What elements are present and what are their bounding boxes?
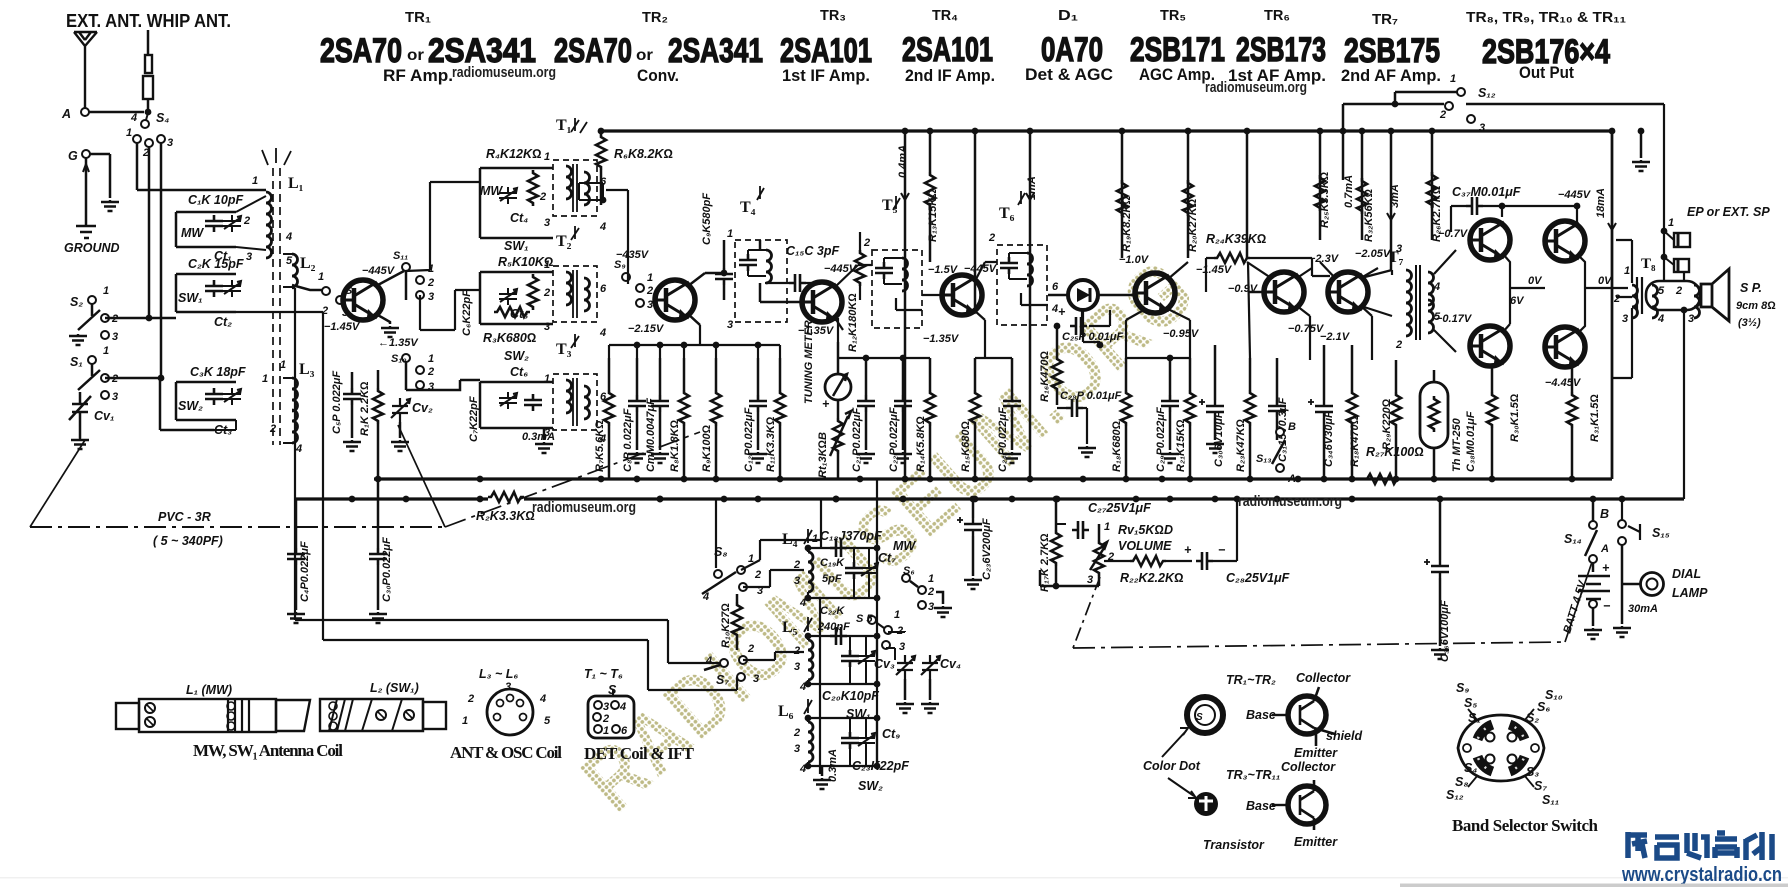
trimmer Ct8: [857, 650, 875, 667]
svg-text:4: 4: [599, 221, 606, 233]
svg-text:S: S: [1196, 712, 1203, 723]
svg-text:R₁₂K180KΩ: R₁₂K180KΩ: [847, 293, 859, 352]
svg-text:4: 4: [599, 327, 606, 339]
switch S13: [1276, 428, 1284, 436]
svg-text:3: 3: [112, 331, 118, 343]
S4 wires down: [137, 143, 161, 378]
svg-text:R₂₄K39KΩ: R₂₄K39KΩ: [1206, 232, 1267, 246]
ground C4: [287, 612, 305, 623]
switch S8: [714, 570, 722, 578]
svg-text:3: 3: [794, 743, 800, 755]
resistor R17 2.7K: [1051, 530, 1061, 566]
svg-text:A: A: [1600, 543, 1609, 555]
transistor TR6 2SB173 1st AF: [1264, 272, 1304, 312]
svg-text:L₅: L₅: [782, 619, 798, 636]
svg-text:B: B: [1288, 421, 1296, 433]
svg-text:4: 4: [1433, 281, 1440, 293]
svg-text:−1.45V: −1.45V: [1196, 264, 1233, 276]
block bus verticals: [236, 312, 323, 640]
svg-text:Ct₉: Ct₉: [882, 727, 900, 741]
svg-text:3: 3: [112, 391, 118, 403]
svg-text:6: 6: [621, 725, 628, 737]
svg-text:EXT. ANT. WHIP ANT.: EXT. ANT. WHIP ANT.: [66, 11, 231, 31]
svg-text:2: 2: [539, 191, 546, 203]
electrolytic C34 6V30uF: [1308, 399, 1333, 418]
svg-text:R₂₇K100Ω: R₂₇K100Ω: [1366, 445, 1424, 459]
svg-text:radiomuseum.org: radiomuseum.org: [532, 500, 636, 516]
svg-text:D₁: D₁: [1058, 7, 1078, 24]
ground L6: [813, 778, 831, 789]
capacitor C4 0.022uF: [287, 548, 305, 565]
electrolytic C23 6V200uF: [957, 517, 982, 536]
svg-text:2: 2: [427, 277, 434, 289]
svg-text:R₁₁K3.3KΩ: R₁₁K3.3KΩ: [765, 416, 777, 472]
resistor R31 1.5ohm: [1567, 392, 1577, 428]
svg-text:S₄: S₄: [1464, 761, 1477, 775]
svg-text:2: 2: [793, 727, 800, 739]
L6 coil: [808, 722, 813, 762]
svg-text:1: 1: [603, 725, 609, 737]
wire pot bottom: [1040, 570, 1099, 586]
current arrows on feeds: [901, 193, 909, 200]
T8 wires: [1612, 240, 1632, 378]
capacitor C25 0.01uF: [1070, 317, 1087, 335]
wires from left into osc block: [295, 620, 720, 663]
svg-text:C₂₂P0.022μF: C₂₂P0.022μF: [888, 407, 900, 472]
svg-text:B: B: [1600, 507, 1609, 521]
terminal G: [82, 150, 90, 158]
ground Cv4: [921, 702, 939, 713]
svg-text:S₁₄: S₁₄: [1564, 532, 1582, 546]
svg-text:C₃K 18pF: C₃K 18pF: [190, 365, 246, 379]
component column R&#8321;&#8321;K3.3K&#8486;: [775, 390, 785, 426]
svg-text:5pF: 5pF: [822, 573, 842, 585]
svg-text:9cm 8Ω: 9cm 8Ω: [1736, 300, 1776, 312]
svg-text:L₁ (MW): L₁ (MW): [186, 683, 232, 697]
transistor TR10 2SB176: [1470, 326, 1510, 366]
crystalradio logo blue: [1628, 832, 1772, 860]
svg-text:Cv₁: Cv₁: [94, 409, 114, 423]
svg-text:−: −: [1218, 543, 1226, 557]
transistor TR1 2SA70 RF amp: [343, 280, 383, 320]
band selector switch: [1458, 715, 1544, 781]
svg-text:2: 2: [747, 643, 754, 655]
svg-text:C₂K 15pF: C₂K 15pF: [188, 257, 244, 271]
component column C&#8322;&#8322;P0.022&#956;F: [894, 395, 912, 412]
svg-text:1: 1: [544, 373, 550, 385]
svg-text:LAMP: LAMP: [1672, 586, 1708, 600]
component column R&#8322;&#8323;K47K&#8486;: [1245, 390, 1255, 426]
ground Cv2: [391, 440, 409, 451]
resistor R22 2.2K: [1130, 556, 1166, 566]
svg-text:2SA70: 2SA70: [320, 32, 402, 70]
svg-text:TR₂: TR₂: [642, 9, 668, 26]
svg-text:TR₁: TR₁: [405, 9, 431, 26]
svg-text:S₈: S₈: [1455, 775, 1468, 789]
svg-text:5: 5: [286, 255, 293, 267]
svg-text:( 5 ~ 340PF): ( 5 ~ 340PF): [153, 534, 223, 548]
svg-text:S₁₂: S₁₂: [1478, 86, 1496, 100]
component column R&#8329;K100&#8486;: [711, 390, 721, 426]
svg-text:ANT & OSC Coil: ANT & OSC Coil: [450, 743, 562, 762]
PVC-3R dash-dot boundary: [30, 526, 445, 528]
svg-text:1: 1: [727, 228, 733, 240]
svg-text:3: 3: [505, 681, 511, 693]
capacitor C21: [841, 732, 859, 749]
column group bus wires: [609, 344, 780, 346]
svg-text:1st IF Amp.: 1st IF Amp.: [782, 66, 870, 85]
L1 antenna rod dashed: [273, 168, 280, 445]
resistor R20 27K: [1183, 180, 1193, 216]
T8 primary coil: [1632, 285, 1638, 318]
svg-text:3: 3: [1688, 313, 1694, 325]
svg-text:6: 6: [600, 283, 607, 295]
top supply rail: [600, 129, 1612, 132]
resistor R10 27: [732, 602, 742, 638]
svg-text:C₁K 10pF: C₁K 10pF: [188, 193, 243, 207]
svg-text:T₂: T₂: [556, 233, 572, 250]
component column C&#8322;&#8321;P0.022&#956;F: [857, 395, 875, 412]
svg-text:Ct₇: Ct₇: [878, 551, 896, 565]
svg-text:2: 2: [988, 232, 995, 244]
svg-text:−2.1V: −2.1V: [1320, 331, 1351, 343]
svg-text:4: 4: [619, 701, 626, 713]
svg-text:S₅: S₅: [1464, 696, 1477, 710]
svg-text:1: 1: [252, 175, 258, 187]
resistor R12 180K: [855, 250, 865, 286]
small color dot: [1194, 792, 1218, 816]
component column R&#8322;&#8321;K15K&#8486;: [1185, 390, 1195, 426]
svg-text:4: 4: [130, 112, 137, 124]
svg-text:L₃ ~ L₆: L₃ ~ L₆: [479, 667, 518, 681]
svg-text:Cv₄: Cv₄: [940, 657, 961, 671]
svg-text:Cv₂: Cv₂: [412, 401, 433, 415]
svg-text:1: 1: [103, 285, 109, 297]
svg-text:Emitter: Emitter: [1294, 746, 1338, 760]
svg-text:Band Selector Switch: Band Selector Switch: [1452, 816, 1599, 835]
ext antenna symbol: [74, 32, 97, 112]
svg-text:S₃: S₃: [1526, 765, 1539, 779]
svg-text:−2.05V: −2.05V: [1355, 248, 1392, 260]
ground T3 area: [535, 442, 553, 453]
svg-text:C₂₄P0.022μF: C₂₄P0.022μF: [997, 407, 1009, 472]
svg-text:T₄: T₄: [740, 199, 756, 216]
trimmer Ct4: [499, 187, 517, 204]
svg-text:TR₄: TR₄: [932, 7, 958, 24]
svg-text:RF Amp.: RF Amp.: [383, 66, 453, 85]
svg-text:GROUND: GROUND: [64, 241, 120, 255]
svg-text:T₈: T₈: [1641, 256, 1656, 272]
svg-text:R₃₁K1.5Ω: R₃₁K1.5Ω: [1589, 394, 1601, 442]
svg-text:3: 3: [603, 701, 609, 713]
svg-text:1: 1: [103, 345, 109, 357]
svg-text:Collector: Collector: [1281, 760, 1336, 774]
svg-text:−0.95V: −0.95V: [1163, 328, 1200, 340]
ground C30: [1206, 442, 1224, 453]
svg-text:−1.35V: −1.35V: [923, 333, 960, 345]
transistor TR5 2SB171 AGC: [1135, 273, 1175, 313]
capacitor C22 on L5: [830, 627, 847, 645]
potentiometer Rv1 5K: [1094, 540, 1104, 576]
svg-text:Transistor: Transistor: [1203, 838, 1265, 852]
svg-text:3: 3: [928, 601, 934, 613]
svg-text:MW: MW: [480, 184, 503, 198]
svg-text:R₃K680Ω: R₃K680Ω: [483, 331, 537, 345]
svg-text:or: or: [636, 47, 653, 64]
svg-text:C₇K22pF: C₇K22pF: [468, 396, 480, 442]
resistor R24 39K: [1214, 253, 1250, 263]
L5 loop: [808, 636, 877, 684]
transistor TR2 2SA70 conv: [655, 280, 695, 320]
svg-text:R₁₆K470Ω: R₁₆K470Ω: [1039, 351, 1051, 402]
svg-text:S₁₁: S₁₁: [393, 250, 408, 262]
svg-text:L₂ (SW₁): L₂ (SW₁): [370, 681, 419, 695]
svg-text:C₄P0.022μF: C₄P0.022μF: [299, 541, 311, 602]
svg-text:−1.45V: −1.45V: [324, 321, 361, 333]
svg-text:2: 2: [1439, 109, 1446, 121]
svg-text:S₁: S₁: [70, 355, 83, 369]
capacitor C15 3pF: [789, 274, 806, 292]
svg-text:S₇: S₇: [1534, 779, 1547, 793]
svg-text:Ct₄: Ct₄: [510, 211, 528, 225]
svg-text:3: 3: [544, 321, 550, 333]
svg-text:or: or: [407, 47, 424, 64]
svg-text:S₇: S₇: [716, 673, 729, 687]
svg-text:C₃₇M0.01μF: C₃₇M0.01μF: [1452, 185, 1521, 199]
T8 secondary coil b: [1694, 285, 1700, 318]
switch S4: [141, 120, 149, 128]
svg-text:Conv.: Conv.: [637, 66, 679, 85]
svg-text:←1.35V: ←1.35V: [378, 337, 419, 349]
resistor R25 3.3K: [1315, 175, 1325, 211]
svg-text:2SB175: 2SB175: [1344, 32, 1440, 70]
svg-text:shield: shield: [1326, 729, 1362, 743]
svg-text:C₂₇25V1μF: C₂₇25V1μF: [1088, 501, 1151, 515]
rail junction dots/verticals: [904, 131, 907, 479]
resistor R27 100: [1364, 474, 1400, 484]
T5 transformer: [872, 250, 922, 328]
svg-text:3: 3: [794, 575, 800, 587]
svg-text:C₃₈M0.01μF: C₃₈M0.01μF: [1465, 411, 1477, 472]
ground battery: [1584, 628, 1602, 639]
svg-text:R₂₁K15KΩ: R₂₁K15KΩ: [1175, 419, 1187, 472]
capacitor C31 0.3uF: [1268, 400, 1286, 417]
ground dial lamp: [1613, 626, 1631, 637]
svg-text:Base: Base: [1246, 799, 1276, 813]
svg-text:2: 2: [467, 693, 474, 705]
svg-text:4: 4: [1657, 313, 1664, 325]
svg-text:S₂: S₂: [70, 295, 83, 309]
trimmer Ct3: [223, 388, 241, 405]
svg-text:3: 3: [647, 299, 653, 311]
mid rail upper y479: [374, 477, 1612, 480]
component column CmM0.0047&#956;F: [651, 395, 669, 412]
svg-text:T₃: T₃: [556, 341, 572, 358]
svg-text:Ct₆: Ct₆: [510, 365, 528, 379]
svg-text:CmM0.0047μF: CmM0.0047μF: [645, 398, 657, 472]
svg-text:S P.: S P.: [1740, 281, 1762, 295]
svg-text:4: 4: [799, 763, 806, 775]
wires T1 to S9: [606, 190, 628, 284]
svg-text:2SA101: 2SA101: [902, 31, 993, 69]
capacitor C28P 0.01uF: [1066, 399, 1083, 417]
svg-text:−1.5V: −1.5V: [928, 264, 959, 276]
D1 wires down: [1083, 310, 1100, 342]
volume dash-dot linkage: [1073, 577, 1100, 648]
resistor R6 8.2K: [596, 134, 606, 170]
capacitor C3: [205, 388, 223, 405]
svg-text:TR₇: TR₇: [1372, 11, 1398, 28]
svg-text:6V: 6V: [1510, 295, 1525, 307]
mid rail lower y499: [296, 497, 1684, 500]
selector ring arcs: [1478, 725, 1525, 772]
svg-text:TR₃: TR₃: [820, 7, 846, 24]
svg-text:S₁₁: S₁₁: [1542, 793, 1559, 807]
svg-text:2: 2: [1613, 293, 1620, 305]
svg-text:−435V: −435V: [616, 249, 650, 261]
T7 wires to outputs: [1361, 250, 1456, 352]
svg-text:Base: Base: [1246, 708, 1276, 722]
vertical feeds into osc block: [716, 479, 877, 774]
electrolytic C36 6V100uF: [1424, 559, 1449, 578]
resistor R32 56K: [1357, 178, 1367, 214]
IF transformer T3: [553, 374, 597, 430]
thin grey line bottom: [0, 877, 1788, 879]
svg-text:2: 2: [1675, 285, 1682, 297]
svg-text:C₂₀K10pF: C₂₀K10pF: [822, 689, 879, 703]
trimmer Ct5: [499, 288, 517, 305]
TR1 emitter: [376, 314, 390, 324]
svg-text:TUNING METER: TUNING METER: [803, 320, 815, 404]
ground L6: [821, 766, 824, 776]
svg-text:−1.0V: −1.0V: [1119, 254, 1150, 266]
svg-text:3mA: 3mA: [1389, 184, 1401, 208]
switch S1: [88, 356, 96, 364]
svg-text:S₁₅: S₁₅: [1652, 526, 1670, 540]
svg-text:S₁: S₁: [1468, 711, 1481, 725]
svg-text:A: A: [61, 107, 71, 121]
svg-text:4: 4: [799, 681, 806, 693]
svg-text:1: 1: [280, 359, 286, 371]
svg-text:S₄: S₄: [156, 111, 169, 125]
resistor R29 220: [1391, 392, 1401, 428]
ground S2: [69, 334, 87, 345]
svg-text:Collector: Collector: [1296, 671, 1351, 685]
svg-text:3: 3: [727, 319, 733, 331]
trimmer Ct2: [223, 280, 241, 297]
L5 coil: [808, 640, 813, 680]
ground C23: [964, 578, 982, 589]
switch S5: [868, 616, 876, 624]
svg-text:C₁₅C 3pF: C₁₅C 3pF: [786, 244, 839, 258]
capacitor C9 580pF: [715, 268, 733, 285]
svg-text:3: 3: [428, 291, 434, 303]
whip antenna rod: [147, 30, 150, 55]
resistor R18 470: [1347, 390, 1357, 426]
svg-text:R₁₈K680Ω: R₁₈K680Ω: [1111, 420, 1123, 472]
svg-text:C₅P 0.022μF: C₅P 0.022μF: [331, 371, 343, 434]
svg-text:2nd IF Amp.: 2nd IF Amp.: [905, 66, 995, 85]
svg-text:C₆K22pF: C₆K22pF: [461, 290, 473, 336]
svg-text:0V: 0V: [1528, 275, 1543, 287]
ground C28P: [1078, 446, 1096, 457]
svg-text:S 5: S 5: [856, 613, 873, 625]
svg-text:T₁ ~ T₆: T₁ ~ T₆: [584, 667, 623, 681]
component column C&#8322;&#8329;P0.022&#956;F: [1161, 395, 1179, 412]
emitter stubs to column bus: [688, 314, 700, 345]
svg-text:R₂₉K220Ω: R₂₉K220Ω: [1381, 398, 1393, 450]
svg-text:TR₅: TR₅: [1160, 7, 1186, 24]
svg-text:30mA: 30mA: [1628, 603, 1658, 615]
svg-text:SW₂: SW₂: [178, 399, 203, 413]
capacitor in SW2 block: [524, 394, 542, 411]
svg-text:−: −: [1603, 599, 1611, 613]
svg-text:C₃₀P0.022μF: C₃₀P0.022μF: [381, 537, 393, 602]
wire to L1: [137, 189, 266, 192]
svg-text:4: 4: [705, 655, 712, 667]
switch S10: [402, 354, 410, 362]
capacitor C18 370pF: [830, 539, 847, 557]
svg-text:1: 1: [544, 151, 550, 163]
svg-text:www.crystalradio.cn: www.crystalradio.cn: [1621, 863, 1782, 886]
IF transformer T2: [553, 266, 597, 322]
T4 cap: [739, 254, 757, 271]
component column C&#8328;P 0.022&#956;F: [628, 395, 646, 412]
switch S2: [88, 296, 96, 304]
component column R&#8321;&#8324;K5.8K&#8486;: [925, 390, 935, 426]
svg-text:T₆: T₆: [999, 205, 1015, 222]
svg-text:1: 1: [126, 127, 132, 139]
svg-text:SW₁: SW₁: [178, 291, 203, 305]
transistor TR9 2SB176: [1545, 221, 1585, 261]
resistor R2 3.3K: [488, 492, 524, 502]
ground TR1 emitter: [381, 326, 399, 337]
ground C5: [343, 440, 361, 451]
ground C36: [1431, 648, 1449, 659]
svg-text:C₂₃K22pF: C₂₃K22pF: [852, 759, 909, 773]
svg-text:L₂: L₂: [300, 255, 316, 272]
switch S11: [402, 263, 410, 271]
svg-text:TR₃~TR₁₁: TR₃~TR₁₁: [1226, 768, 1280, 782]
svg-text:VOLUME: VOLUME: [1118, 539, 1172, 553]
svg-text:L₆: L₆: [778, 703, 794, 720]
svg-text:5: 5: [544, 715, 551, 727]
resistor R13 15K: [925, 172, 935, 208]
svg-text:S₁₀: S₁₀: [391, 353, 407, 365]
trimmer Ct1: [223, 215, 241, 232]
svg-text:Cv₃: Cv₃: [874, 657, 895, 671]
variable capacitor Cv1: [69, 392, 91, 438]
svg-text:R₆K8.2KΩ: R₆K8.2KΩ: [614, 147, 673, 161]
switch S6: [902, 574, 910, 582]
svg-text:L₃: L₃: [299, 361, 315, 378]
svg-text:1: 1: [1624, 265, 1630, 277]
electrolytic C28 1uF: [1196, 552, 1213, 570]
thermistor element: [1429, 396, 1439, 432]
svg-text:C₈P 0.022μF: C₈P 0.022μF: [622, 408, 634, 472]
svg-text:SW₂: SW₂: [504, 349, 529, 363]
svg-text:Out Put: Out Put: [1519, 63, 1574, 82]
svg-text:2SB173: 2SB173: [1236, 31, 1326, 69]
rail end verticals: [375, 476, 382, 483]
trimmer Ct9: [857, 732, 875, 749]
svg-text:SW₂: SW₂: [858, 779, 883, 793]
svg-text:AGC Amp.: AGC Amp.: [1139, 65, 1215, 84]
svg-text:240pF: 240pF: [817, 621, 850, 633]
svg-text:2: 2: [427, 366, 434, 378]
svg-text:TR₈, TR₉, TR₁₀ & TR₁₁: TR₈, TR₉, TR₁₀ & TR₁₁: [1466, 9, 1626, 26]
component column R&#8327;K5.6K&#8486;: [604, 390, 614, 426]
